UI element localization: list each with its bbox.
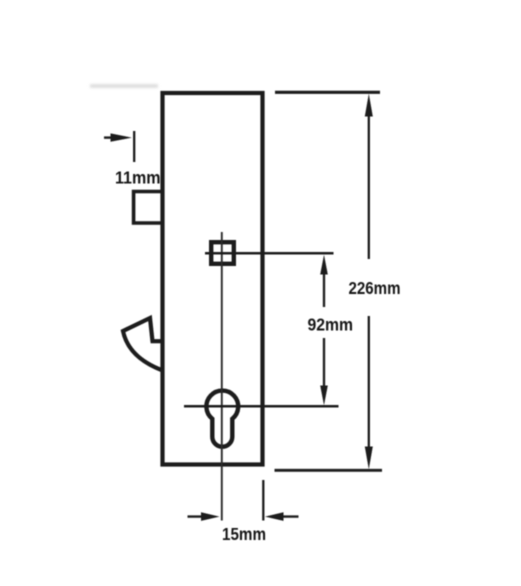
top extension line: [275, 91, 380, 94]
11mm arrowhead: [111, 133, 132, 141]
92mm upper arrowhead: [320, 255, 328, 275]
horizontal line through keyhole: [184, 405, 339, 408]
11mm extension line: [133, 131, 135, 162]
vertical centerline: [221, 232, 223, 521]
horizontal line through square: [205, 252, 334, 255]
svg-text:15mm: 15mm: [222, 524, 266, 544]
bottom extension line: [275, 469, 383, 472]
svg-text:92mm: 92mm: [308, 315, 354, 335]
15mm right arrow tail: [281, 515, 299, 517]
svg-text:226mm: 226mm: [349, 278, 401, 298]
15mm left arrow tail: [188, 515, 206, 517]
15mm right arrowhead: [265, 512, 284, 521]
15mm left arrowhead: [201, 512, 220, 521]
226mm bottom arrowhead: [365, 447, 373, 470]
92mm lower dimension line: [323, 338, 325, 392]
faint extension line top left: [90, 84, 158, 88]
226mm top arrowhead: [365, 94, 373, 117]
latch bolt: [134, 192, 163, 224]
226mm dimension line lower segment: [368, 316, 370, 450]
15mm right extension line: [262, 480, 264, 521]
hook bolt: [123, 318, 163, 370]
svg-text:11mm: 11mm: [115, 168, 161, 188]
11mm arrow tail: [104, 136, 114, 138]
226mm dimension line upper segment: [368, 112, 370, 259]
euro cylinder keyhole: [206, 391, 238, 447]
92mm lower arrowhead: [320, 386, 328, 406]
lock case plate: [163, 93, 263, 465]
92mm upper dimension line: [323, 268, 325, 307]
spindle follower square: [211, 242, 234, 264]
